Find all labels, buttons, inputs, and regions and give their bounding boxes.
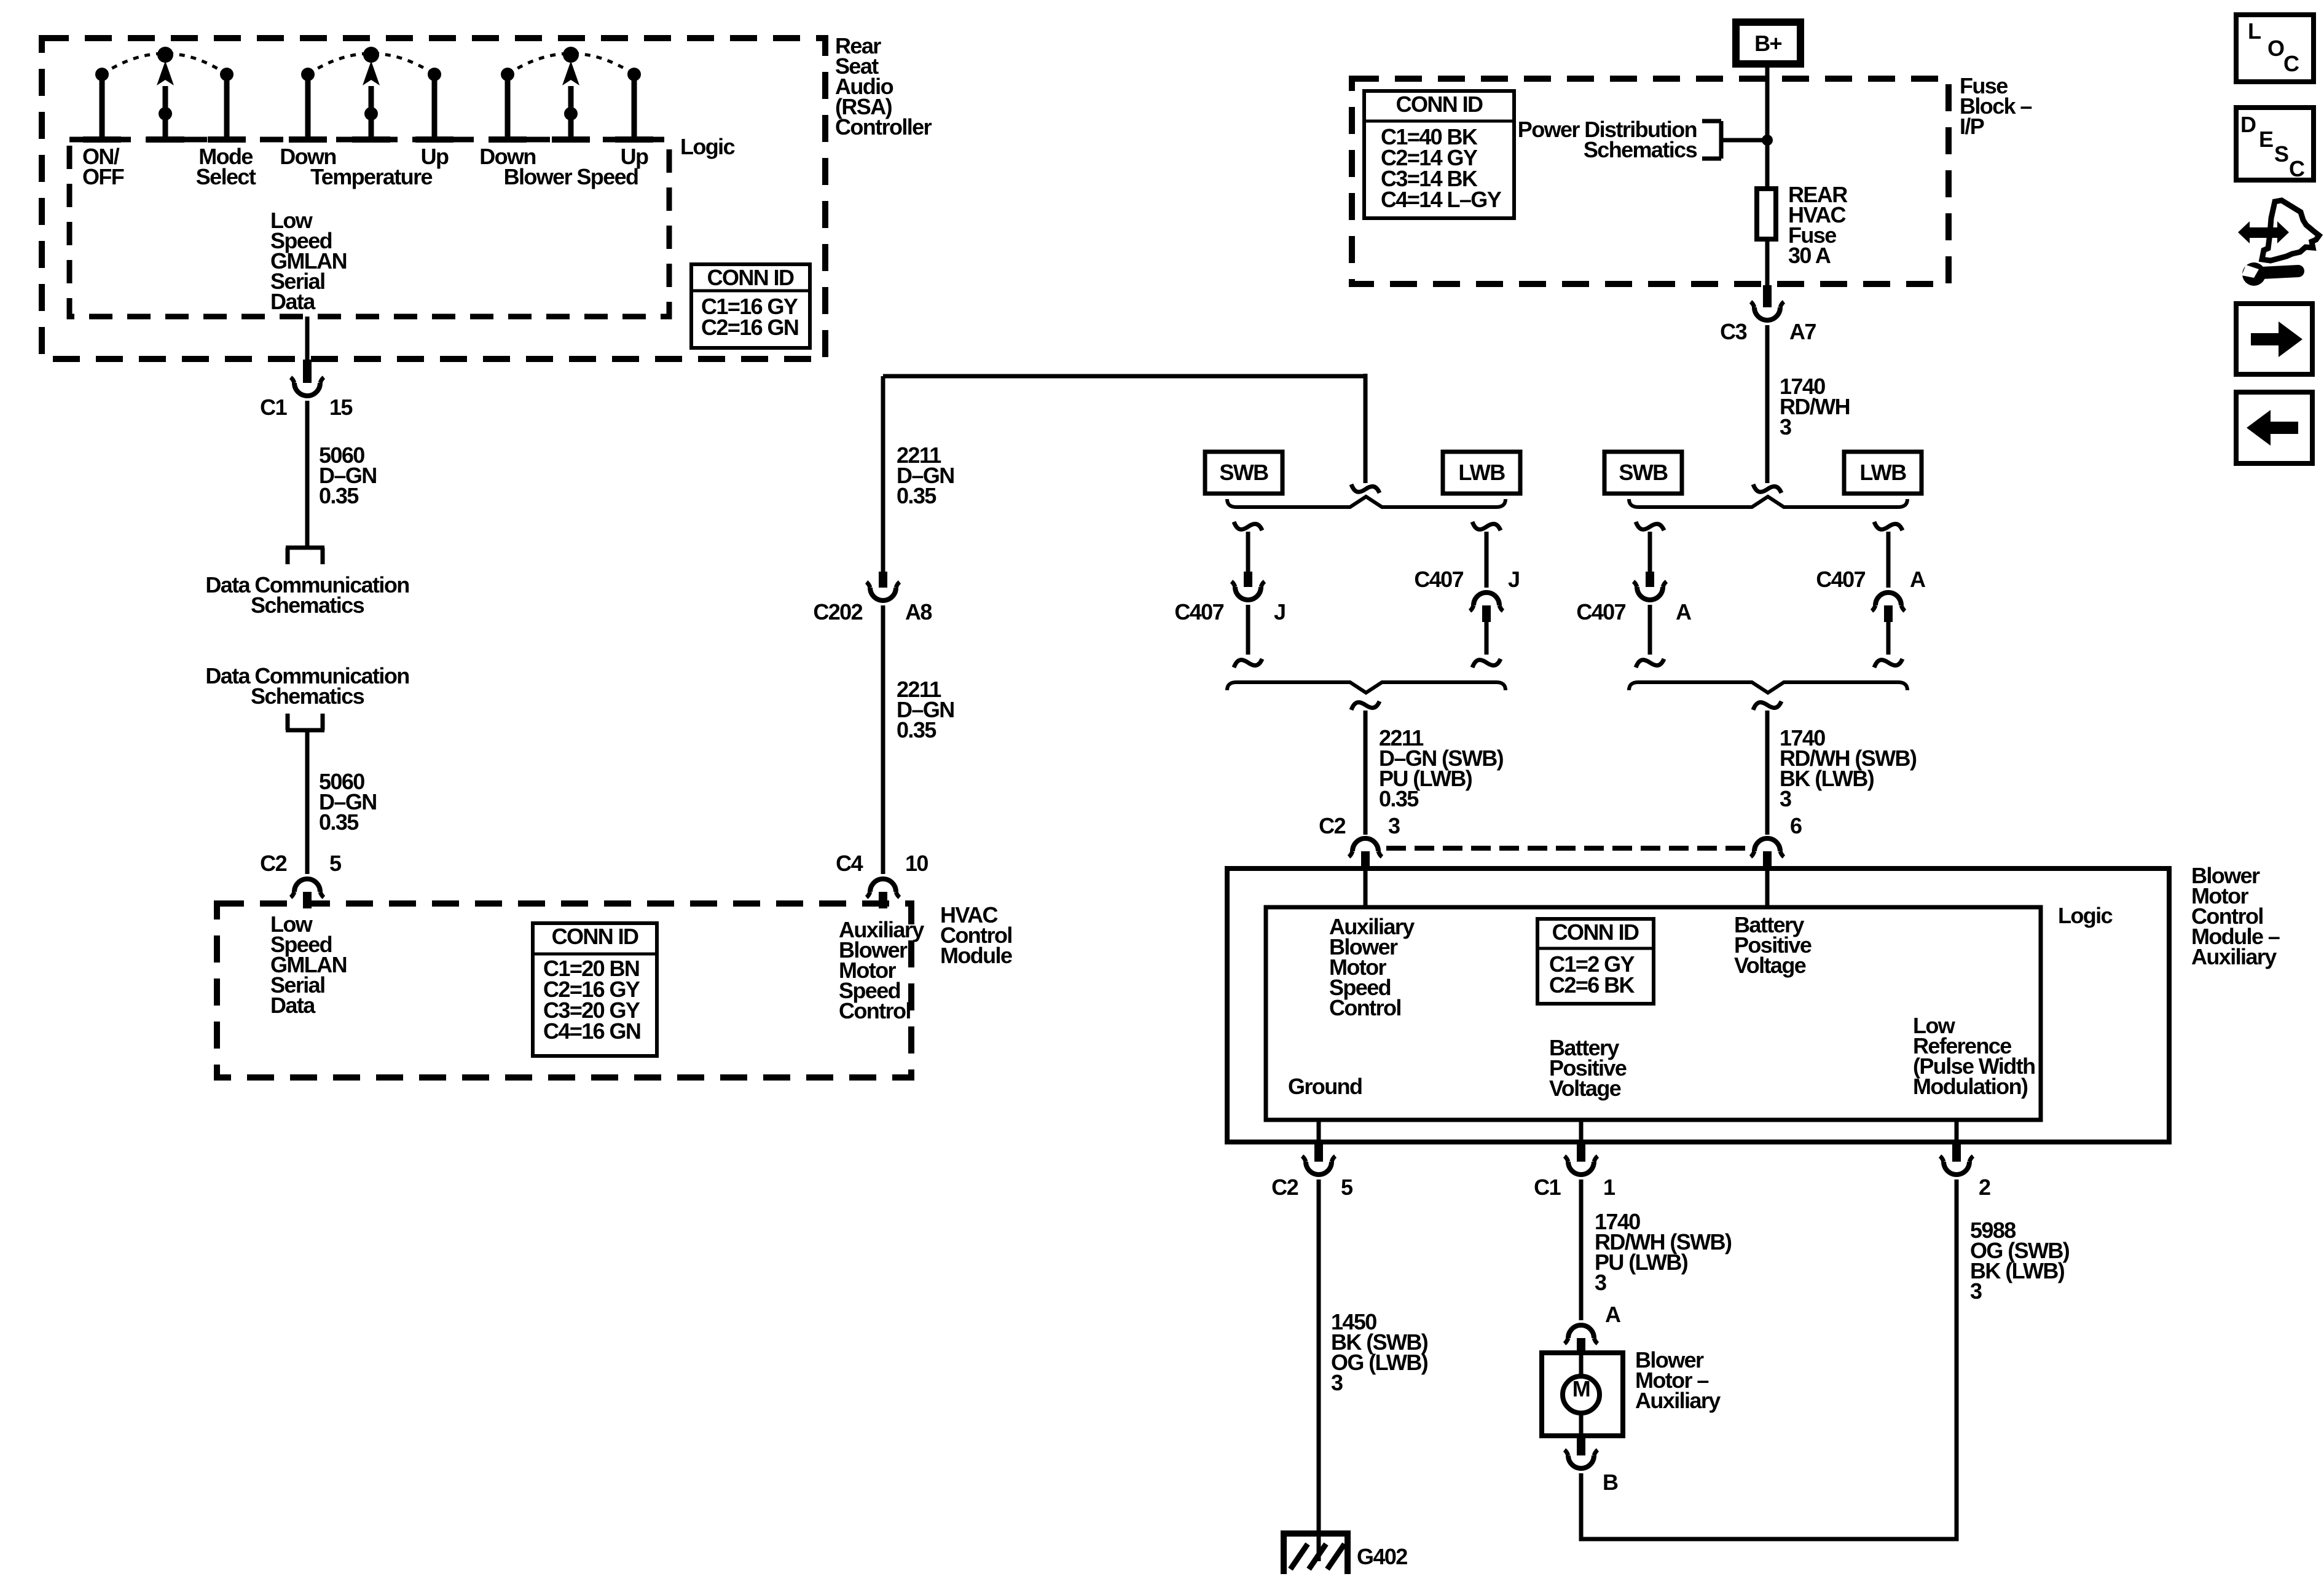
svg-text:Data: Data [270,289,316,314]
svg-text:Data: Data [270,993,316,1018]
svg-text:C2=6 BK: C2=6 BK [1549,972,1635,998]
svg-text:BK (LWB): BK (LWB) [1780,766,1874,791]
svg-text:C407: C407 [1576,599,1625,624]
svg-text:C2=16 GN: C2=16 GN [701,315,798,340]
splice bus brace (top) [1629,497,1907,507]
icon DESC box [2236,108,2314,180]
svg-text:PU (LWB): PU (LWB) [1595,1250,1688,1275]
switch travel arc (dashed) [508,53,634,74]
svg-text:Schematics: Schematics [251,593,364,618]
switch common pole with arrow [369,86,374,140]
splice wire exit squiggle (bottom) [1351,701,1380,710]
wire 1450 ground circuit [1317,1179,1321,1561]
switch apex contact dot [363,47,379,63]
svg-text:A7: A7 [1789,319,1816,344]
module box Fuse Block - I/P (dashed) [1352,79,1949,284]
svg-text:E: E [2259,127,2273,152]
svg-text:A8: A8 [905,599,932,624]
off-page pointer from Data Communication Schematics (source) [286,728,324,733]
svg-text:Modulation): Modulation) [1913,1074,2028,1099]
svg-text:Control: Control [1329,995,1401,1020]
switch travel arc (dashed) [308,53,434,74]
svg-text:Controller: Controller [835,114,932,140]
svg-text:LWB: LWB [1859,460,1906,485]
connector C202 pin A8 [879,572,887,588]
switch left contact post [501,68,514,81]
svg-text:B: B [1603,1470,1618,1495]
svg-text:Schematics: Schematics [251,683,364,709]
svg-text:C4: C4 [836,851,863,876]
wire top horizontal link 2211 D-GN [883,374,1365,379]
wire fuse to C3 [1765,239,1770,285]
connector pin 2 (module low reference output) [1952,1142,1961,1162]
svg-text:0.35: 0.35 [897,483,936,508]
switch apex contact dot [563,47,579,63]
svg-text:3: 3 [1331,1370,1343,1395]
internal wire stubs to module edge [1317,1120,1321,1142]
svg-text:15: 15 [329,395,353,420]
splice bus brace (top) [1227,497,1505,507]
wire stub pin6 into logic [1765,869,1770,908]
wire 2211 D-GN from junction to C202 [881,376,885,572]
power feed B+ terminal [1736,22,1800,64]
wire 1740 RD/WH from C3-A7 [1765,325,1770,483]
svg-text:C407: C407 [1174,599,1223,624]
connector C407 terminal A (left) [1646,572,1654,587]
svg-text:SWB: SWB [1219,460,1268,485]
svg-text:3: 3 [1970,1278,1982,1304]
svg-text:C1: C1 [260,395,287,420]
blower motor - auxiliary [1542,1353,1623,1436]
connector terminal B (blower motor) [1577,1436,1585,1455]
svg-text:Temperature: Temperature [310,164,432,189]
svg-text:10: 10 [905,851,928,876]
icon back arrow box [2236,392,2312,463]
svg-text:C4=14 L–GY: C4=14 L–GY [1381,187,1502,212]
svg-text:OFF: OFF [82,164,124,189]
switch right contact post [220,68,234,81]
svg-text:3: 3 [1388,813,1400,838]
splice wire entry squiggle (top) [1351,484,1380,493]
right branch wire (LWB) [1472,522,1501,530]
svg-text:OG (LWB): OG (LWB) [1331,1350,1428,1375]
svg-text:CONN ID: CONN ID [1552,919,1639,945]
switch base bars [83,136,121,143]
svg-text:30 A: 30 A [1788,243,1831,268]
logic box inside blower motor control module [1266,907,2041,1120]
wire motor return to low reference [1581,1179,1957,1539]
CONN ID table (fuse block) [1364,91,1514,218]
svg-text:Ground: Ground [1288,1074,1362,1099]
svg-text:C: C [2289,156,2305,181]
svg-text:1: 1 [1603,1175,1615,1200]
wire 2211 D-GN from C202 to HVAC module [881,605,885,874]
switch common pole with arrow [568,86,574,140]
module box Blower Motor Control Module - Auxiliary [1227,868,2169,1142]
icon LOC box [2236,15,2314,82]
svg-text:L: L [2248,18,2261,44]
ground G402 [1281,1530,1351,1537]
splice bus brace (bottom) [1227,682,1505,693]
svg-text:C: C [2283,51,2299,76]
wire 5060 D-GN to HVAC control module [305,730,310,874]
connector C1 pin 1 (module battery output) [1577,1142,1585,1162]
terminal box LWB [1844,452,1922,494]
svg-text:C407: C407 [1816,567,1865,592]
svg-text:Schematics: Schematics [1584,137,1697,162]
svg-text:C2: C2 [260,851,286,876]
left branch wire (SWB) [1636,522,1664,530]
svg-text:Auxiliary: Auxiliary [2191,944,2277,969]
svg-text:0.35: 0.35 [1379,786,1419,811]
svg-text:C202: C202 [813,599,862,624]
switch travel arc (dashed) [102,53,227,74]
svg-text:C1: C1 [1534,1175,1561,1200]
switch right contact post [428,68,441,81]
svg-text:Logic: Logic [2058,903,2113,928]
svg-text:A: A [1676,599,1692,624]
CONN ID table (blower motor control module) [1537,919,1654,1004]
svg-text:J: J [1274,599,1285,624]
svg-text:I/P: I/P [1960,114,1984,139]
svg-text:6: 6 [1790,813,1802,838]
svg-text:J: J [1508,567,1519,592]
svg-text:Voltage: Voltage [1549,1076,1621,1101]
svg-text:0.35: 0.35 [897,717,936,742]
svg-text:Auxiliary: Auxiliary [1635,1388,1721,1413]
off-page bracket Power Distribution Schematics [1721,138,1767,143]
svg-text:Module: Module [940,943,1012,968]
splice wire entry squiggle (top) [1753,484,1781,493]
svg-text:Voltage: Voltage [1734,953,1806,978]
svg-text:2: 2 [1979,1175,1990,1200]
switch base bars [289,136,327,143]
logic box inside RSA controller (dashed) [69,140,669,317]
wire 1740 to blower motor [1579,1179,1584,1320]
svg-text:Select: Select [196,164,256,189]
svg-text:O: O [2267,36,2284,61]
junction node on B+ feed [1762,135,1773,146]
switch left contact post [301,68,315,81]
svg-text:Blower Speed: Blower Speed [504,164,638,189]
svg-text:A: A [1605,1302,1621,1327]
splice bus brace (bottom) [1629,682,1907,693]
wire 5060 D-GN from C1-15 [305,401,310,549]
svg-text:G402: G402 [1357,1544,1407,1569]
terminal box SWB [1205,452,1282,494]
module box HVAC Control Module (dashed) [217,904,911,1077]
left branch wire (SWB) [1234,522,1262,530]
icon forward arrow box [2236,304,2312,374]
wire from Serial Data to RSA case [305,317,310,360]
switch left contact post [95,68,109,81]
svg-text:A: A [1910,567,1926,592]
svg-text:Logic: Logic [680,134,735,159]
dashed link between module connectors [1386,846,1749,851]
svg-text:3: 3 [1595,1270,1606,1295]
splice wire exit squiggle (bottom) [1753,701,1781,710]
connector C3 pin A7 (fuse block) [1763,285,1772,307]
terminal box LWB [1443,452,1520,494]
svg-text:C2: C2 [1271,1175,1298,1200]
svg-text:M: M [1572,1376,1590,1401]
svg-text:S: S [2274,141,2288,167]
svg-text:BK (LWB): BK (LWB) [1970,1258,2065,1283]
svg-text:C4=16 GN: C4=16 GN [543,1018,640,1044]
svg-text:C2: C2 [1319,813,1345,838]
svg-text:0.35: 0.35 [319,809,359,835]
svg-text:SWB: SWB [1619,460,1668,485]
svg-text:LWB: LWB [1458,460,1505,485]
svg-text:CONN ID: CONN ID [552,924,638,949]
wire stub C2-3 into logic [1364,869,1368,908]
CONN ID table (HVAC control module) [533,923,657,1056]
switch base bars [489,136,527,143]
connector C407 terminal J (left) [1244,572,1252,587]
module box Rear Seat Audio (RSA) Controller (dashed) [42,38,825,359]
svg-text:C3: C3 [1720,319,1746,344]
switch common pole with arrow [163,86,168,140]
CONN ID table (RSA controller) [691,264,810,348]
svg-text:B+: B+ [1754,31,1781,56]
connector C1 pin 15 (RSA controller) [303,360,312,383]
svg-text:D: D [2240,112,2256,137]
svg-text:C407: C407 [1414,567,1463,592]
icon part outline with arrows and wrench [2262,200,2319,261]
terminal box SWB [1604,452,1682,494]
connector C2 pin 5 (module ground output) [1314,1142,1323,1162]
svg-text:Control: Control [839,998,911,1023]
svg-text:5: 5 [329,851,342,876]
switch apex contact dot [157,47,173,63]
switch right contact post [627,68,641,81]
svg-text:0.35: 0.35 [319,483,359,508]
svg-text:3: 3 [1780,786,1791,811]
svg-text:5: 5 [1341,1175,1353,1200]
svg-text:3: 3 [1780,414,1791,439]
off-page pointer to Data Communication Schematics (down) [286,546,324,550]
right branch wire (LWB) [1874,522,1902,530]
svg-text:CONN ID: CONN ID [1396,92,1483,117]
svg-text:CONN ID: CONN ID [707,265,794,290]
wire B+ to fuse [1765,64,1770,189]
fuse REAR HVAC Fuse 30 A [1757,189,1776,239]
